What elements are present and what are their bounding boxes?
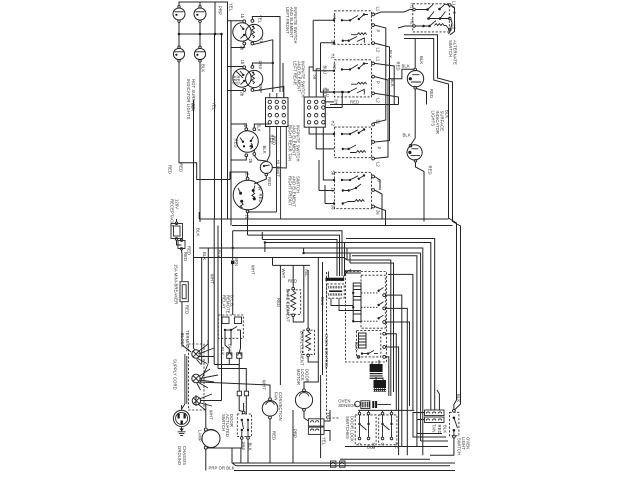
- wire connector feed 4: [437, 390, 439, 410]
- wire bottom bus single: [340, 458, 430, 460]
- svg-text:RED: RED: [179, 163, 184, 172]
- label SWITCH AND ELEMENT RIGHT FRONT: [288, 176, 301, 207]
- wire PRP drop: [214, 2, 216, 34]
- svg-text:PRP: PRP: [241, 442, 246, 451]
- label DOOR ACTUATED SWITCH: [221, 414, 234, 437]
- EOC entry steps: [345, 260, 394, 396]
- wire lamp junction to bus: [232, 448, 236, 466]
- EOC outer dashed enclosure: [346, 272, 387, 363]
- wire bus H3: [233, 231, 342, 276]
- svg-text:H2: H2: [332, 64, 337, 70]
- svg-text:C: C: [380, 443, 385, 446]
- svg-text:P: P: [377, 147, 382, 150]
- hi-limit thermostat: [260, 162, 272, 176]
- wire box A L2 down: [375, 43, 390, 142]
- svg-text:BLK: BLK: [354, 342, 359, 350]
- svg-text:SUPPLY CORD: SUPPLY CORD: [173, 359, 178, 390]
- oven light switch right: [450, 409, 459, 438]
- svg-text:BAKE ELEMENT: BAKE ELEMENT: [286, 289, 291, 323]
- terminal 2b LR: [243, 89, 246, 92]
- connector block motor: [308, 419, 324, 435]
- wire door lock motor bottom: [304, 411, 308, 421]
- svg-text:P: P: [376, 30, 381, 33]
- wire RF element: [230, 172, 266, 235]
- terminal 1b LF: [243, 20, 246, 23]
- console dashed boundary: [327, 272, 341, 418]
- svg-text:BLK: BLK: [419, 56, 424, 64]
- wire BLU verticals: [318, 258, 322, 376]
- svg-text:RED: RED: [276, 298, 281, 307]
- wire into box A row1: [313, 19, 335, 71]
- svg-text:RED: RED: [288, 279, 297, 284]
- wire box A P down BLK: [373, 25, 386, 123]
- wire receptacle to breaker RED: [177, 240, 183, 281]
- svg-text:TAN: TAN: [431, 424, 436, 432]
- svg-text:BLK: BLK: [390, 79, 395, 87]
- terminal L2 C: [372, 157, 375, 160]
- svg-text:RED: RED: [272, 136, 277, 145]
- surface switch box B (dashed): [334, 60, 371, 97]
- wire alt switch right side drops: [449, 6, 455, 35]
- label OVEN SENSOR: [338, 399, 356, 409]
- wire bus H1: [199, 212, 448, 219]
- wire box C D left stubs: [309, 127, 335, 205]
- wire breaker to terminal block RED: [182, 302, 191, 352]
- svg-text:RED: RED: [437, 425, 442, 434]
- wire right YEL bus pair: [272, 17, 283, 93]
- label INFINITE SWITCH AND ELEMENT RIGHT REAR TAN: [288, 125, 301, 162]
- surface switch box A (dashed): [334, 11, 371, 45]
- svg-text:L2: L2: [376, 98, 381, 103]
- svg-text:WHT: WHT: [209, 410, 214, 420]
- wire bus H6: [265, 239, 435, 411]
- svg-text:YEL: YEL: [304, 269, 309, 278]
- surface switch box C (dashed): [334, 127, 371, 158]
- connector P1 hatched: [326, 270, 354, 311]
- svg-text:LEFT REAR: LEFT REAR: [293, 61, 298, 85]
- svg-text:5e: 5e: [331, 171, 336, 176]
- wire PRP-OR-BLK bus: [234, 470, 455, 472]
- svg-text:5a: 5a: [313, 75, 318, 80]
- wire igniter top: [388, 39, 415, 79]
- wire bus H5: [262, 240, 337, 277]
- connector on bus 1: [331, 461, 336, 467]
- svg-text:BRN: BRN: [234, 257, 239, 266]
- element right front (dual): [233, 180, 263, 210]
- indicator lamp DS3 (hot surface, right rear): [173, 46, 184, 62]
- terminal Y1 LF: [251, 42, 254, 45]
- connector block CN2: [304, 97, 325, 127]
- terminal P C: [372, 141, 375, 144]
- terminal block dashed enclosure: [189, 344, 205, 410]
- supply cord conductors: [182, 354, 187, 409]
- junction dots buses: [232, 241, 305, 254]
- svg-text:C: C: [357, 443, 362, 446]
- label DOOR LOCK MOTOR: [296, 369, 310, 385]
- svg-text:H1: H1: [410, 3, 415, 9]
- wire fan top WHT: [200, 382, 270, 398]
- convection fan motor: [262, 398, 278, 419]
- wire bus H7: [199, 248, 423, 455]
- door lock switch left box: [355, 412, 376, 445]
- svg-text:SWITCH: SWITCH: [448, 40, 453, 57]
- EOC right terminal wires: [386, 295, 410, 455]
- svg-text:FAN: FAN: [274, 392, 279, 400]
- wire box A L1 to alternate switch: [375, 10, 413, 15]
- svg-text:H2: H2: [410, 19, 415, 25]
- label TERMINAL BLOCK: [180, 330, 190, 353]
- infinite switch S3 right rear: [237, 131, 259, 153]
- wire into box A row2: [321, 42, 336, 94]
- wire lamp mid junctions: [178, 23, 223, 47]
- wire left verticals: [194, 34, 304, 315]
- terminal P1 LR: [251, 89, 254, 92]
- bake element top wires: [273, 258, 311, 385]
- door lock switch right box: [379, 412, 397, 445]
- indicator lamp DS2 (hot surface, left rear): [194, 6, 206, 23]
- wire CN1 verticals below: [248, 127, 287, 220]
- svg-text:RED: RED: [428, 166, 433, 175]
- terminal PRP LR: [251, 66, 254, 69]
- wire lamp4 bottom BLK run: [199, 62, 201, 222]
- junction blob: [231, 261, 234, 265]
- svg-text:BLK: BLK: [202, 252, 207, 260]
- wire bus H2: [232, 225, 453, 227]
- wire surf light bottom RED: [416, 162, 425, 221]
- label CONVECTION FAN: [274, 392, 284, 421]
- label INFINITE SWITCH AND ELEMENT LEFT FRONT: [285, 7, 298, 44]
- EOC lower relay box: [357, 330, 386, 358]
- label SURFACE INDICATOR LIGHTS: [431, 111, 445, 135]
- svg-text:RED: RED: [168, 165, 173, 174]
- surface switch box D (dashed): [334, 172, 371, 208]
- svg-text:BLK: BLK: [402, 64, 410, 69]
- svg-text:WHT: WHT: [251, 265, 256, 275]
- svg-text:2b: 2b: [248, 159, 253, 164]
- supply entry fans lines: [196, 364, 208, 406]
- svg-text:15A MINI-BREAKER: 15A MINI-BREAKER: [174, 264, 179, 304]
- svg-text:RED: RED: [267, 177, 272, 186]
- svg-text:H2: H2: [331, 121, 336, 127]
- svg-text:GROUND: GROUND: [177, 446, 182, 465]
- wire door switch bottoms: [232, 403, 248, 463]
- svg-text:RED: RED: [396, 62, 401, 71]
- terminal 2b RR: [245, 154, 248, 157]
- terminal 2b LF: [243, 42, 246, 45]
- svg-text:BLK: BLK: [262, 146, 267, 154]
- svg-text:BLK: BLK: [257, 124, 262, 132]
- terminal 1e D: [372, 175, 375, 178]
- wire broil bottom: [308, 357, 318, 362]
- svg-text:L1: L1: [376, 57, 381, 62]
- terminal 2b RF: [246, 210, 249, 213]
- svg-text:BLK: BLK: [196, 228, 201, 236]
- terminal YEL LF: [251, 20, 254, 23]
- svg-text:LIGHTS: LIGHTS: [431, 111, 436, 127]
- wire LR terminals: [228, 63, 284, 98]
- surface element left rear: [246, 70, 263, 87]
- wire above-bus bracket: [345, 446, 448, 448]
- D.L.B. remote relay box: [218, 315, 243, 338]
- terminal RED RR: [253, 153, 256, 156]
- transformer primary: [370, 364, 383, 379]
- label DOOR LOCK SWITCHES: [345, 416, 355, 442]
- right bus pair from top: [404, 35, 461, 410]
- connector block CN1: [266, 98, 289, 127]
- wire left feed bus: [228, 2, 232, 226]
- infinite switch S2 left rear: [233, 69, 251, 87]
- svg-text:P: P: [376, 81, 381, 84]
- left stub labels H1 2H H1 H2 5e 1e 2e: [331, 15, 338, 211]
- svg-text:SENSOR: SENSOR: [338, 403, 356, 408]
- svg-text:BLK: BLK: [442, 425, 447, 433]
- wire LF terminals: [228, 17, 281, 48]
- wire lamp2 top: [199, 2, 201, 6]
- svg-text:BLK: BLK: [220, 347, 225, 355]
- transformer secondary: [374, 380, 387, 392]
- EOC relay coil box: [352, 283, 361, 322]
- svg-text:SWITCHES: SWITCHES: [345, 416, 350, 439]
- svg-text:BLU: BLU: [323, 88, 328, 96]
- surface element left front: [246, 24, 263, 41]
- wire CN2 right side: [325, 91, 343, 108]
- svg-text:WHT: WHT: [262, 380, 267, 390]
- terminal 1b LR: [243, 66, 246, 69]
- svg-text:RED: RED: [185, 305, 190, 314]
- svg-text:BLU: BLU: [320, 297, 325, 305]
- label 120V RECEPTACLE: [170, 199, 180, 228]
- terminal 1b RR: [245, 128, 248, 131]
- svg-text:L2: L2: [376, 48, 381, 53]
- supply plug P1: [173, 410, 189, 426]
- label HOT SURFACE INDICATOR LIGHTS: [186, 79, 196, 120]
- terminal P B: [372, 75, 375, 78]
- label OVEN LIGHT SWITCH: [457, 437, 471, 455]
- svg-text:PRP: PRP: [218, 6, 223, 15]
- label HI LIMIT: [267, 136, 281, 186]
- label INFINITE SWITCH AND ELEMENT LEFT REAR: [293, 61, 306, 98]
- svg-text:BLK: BLK: [201, 64, 206, 72]
- svg-text:PRP: PRP: [257, 61, 262, 70]
- svg-text:BLK: BLK: [388, 50, 393, 58]
- svg-text:RED: RED: [429, 89, 434, 98]
- nested routing left of connector: [413, 413, 448, 442]
- wire fan bottom RED: [269, 419, 271, 463]
- terminal L1 C: [372, 123, 375, 126]
- wire igniter bottom RED: [411, 89, 427, 145]
- wire box B P BLK: [375, 77, 389, 159]
- broil element: [303, 328, 315, 357]
- connector on bus 2: [340, 461, 345, 467]
- svg-text:1b: 1b: [240, 60, 245, 65]
- door switch S10: [237, 411, 251, 439]
- indicator lamp DS1 (hot surface, left front): [173, 6, 185, 23]
- svg-text:BLU: BLU: [323, 66, 328, 74]
- svg-text:2H: 2H: [334, 99, 339, 105]
- svg-text:RED: RED: [258, 194, 263, 203]
- svg-text:L2: L2: [376, 162, 381, 167]
- svg-text:L1: L1: [376, 7, 381, 12]
- label ALTERNATE SWITCH: [448, 40, 458, 65]
- EOC dashed contact box: [361, 275, 386, 328]
- surface indicator light DS5: [407, 145, 422, 163]
- svg-text:RED: RED: [350, 100, 359, 105]
- svg-text:1b: 1b: [240, 14, 245, 19]
- svg-text:LEFT FRONT: LEFT FRONT: [285, 7, 290, 34]
- svg-text:BLK: BLK: [228, 344, 233, 352]
- alternate switch box (dashed): [413, 4, 451, 32]
- terminal L2 B: [372, 92, 375, 95]
- bake element: [288, 287, 301, 316]
- oven sensor connectors: [372, 401, 391, 408]
- svg-text:BLK: BLK: [403, 133, 411, 138]
- svg-text:INDICATOR LIGHTS: INDICATOR LIGHTS: [186, 79, 191, 120]
- oven lamp B1: [202, 428, 220, 449]
- chassis ground symbol: [178, 405, 186, 435]
- terminal BLK RR: [253, 128, 256, 131]
- wire fan from node2: [197, 369, 218, 390]
- wire motor connector sides: [321, 375, 330, 458]
- indicator lamp DS4 (hot surface, right front): [194, 46, 205, 62]
- svg-text:BLK: BLK: [367, 445, 375, 450]
- right bus pair inner: [404, 39, 457, 405]
- wire bake bottom: [293, 317, 304, 322]
- wire receptacle top: [176, 219, 178, 222]
- svg-text:RED: RED: [272, 431, 277, 440]
- wire box D right drops: [375, 177, 386, 226]
- wire oven light switch top: [430, 404, 454, 455]
- wire relay squares to bottom: [214, 358, 248, 414]
- wire door lock junction row: [358, 410, 414, 412]
- terminal block node 1: [192, 350, 200, 358]
- wire box B L1 RED: [375, 63, 395, 104]
- wire PRP drop: [292, 410, 294, 463]
- bottom-right connector row 1: [425, 410, 445, 416]
- infinite switch S1 left front: [233, 23, 251, 41]
- door lock motor: [295, 389, 312, 411]
- svg-text:BLOCK: BLOCK: [180, 333, 185, 348]
- wire bus H9: [194, 258, 348, 261]
- terminal P A: [372, 24, 375, 27]
- svg-text:NC: NC: [394, 443, 399, 449]
- svg-text:RED: RED: [235, 76, 240, 85]
- svg-text:2e: 2e: [331, 205, 336, 210]
- wire top feed YEL: [179, 2, 228, 20]
- svg-text:2e: 2e: [376, 210, 381, 215]
- svg-text:H1: H1: [331, 54, 336, 60]
- wire lamp3 bottom long run: [179, 62, 230, 179]
- svg-text:YEL: YEL: [212, 102, 217, 111]
- svg-text:WHT: WHT: [281, 269, 286, 279]
- fuse box 0.5A: [178, 239, 185, 250]
- wire RR terminals: [231, 124, 269, 161]
- label RED RED: [232, 76, 241, 85]
- svg-text:BLK: BLK: [191, 103, 196, 111]
- wire transformer leads: [372, 360, 383, 381]
- terminal block node 2: [192, 374, 200, 382]
- svg-text:RED: RED: [234, 139, 239, 148]
- wire door lock motor top: [304, 362, 318, 389]
- terminal block node 3: [192, 394, 221, 411]
- svg-text:2b: 2b: [240, 92, 245, 97]
- wire CN2 entries above: [309, 67, 323, 97]
- breaker CB1: [180, 282, 188, 302]
- bottom-right connector row 2: [425, 417, 445, 423]
- terminal 1b RF: [246, 177, 249, 180]
- wire bus H4: [248, 235, 340, 276]
- terminal L1 A: [372, 13, 375, 16]
- svg-text:YEL: YEL: [322, 437, 327, 446]
- svg-text:BLK: BLK: [456, 394, 461, 402]
- svg-text:MOTOR: MOTOR: [296, 369, 301, 385]
- D.L.B. remote relay label: [222, 295, 235, 314]
- svg-text:PRP: PRP: [258, 84, 263, 93]
- svg-text:RELAY: RELAY: [222, 295, 227, 309]
- svg-text:YEL: YEL: [229, 3, 234, 12]
- bottom double bus: [232, 463, 455, 466]
- terminal 2e D: [372, 205, 375, 208]
- terminal L2 A: [372, 42, 375, 45]
- labels TAN RED BLK: [431, 424, 447, 434]
- svg-text:RIGHT REAR TAN: RIGHT REAR TAN: [288, 125, 293, 161]
- receptacle outlet box: [171, 222, 183, 240]
- svg-text:1b: 1b: [243, 123, 248, 128]
- terminal P D: [372, 189, 375, 192]
- svg-text:2b: 2b: [240, 46, 245, 51]
- svg-text:W: W: [257, 187, 262, 191]
- wire DLB relay bottoms: [225, 330, 241, 353]
- svg-text:RIGHT FRONT: RIGHT FRONT: [288, 176, 293, 206]
- svg-text:SWITCH: SWITCH: [457, 438, 462, 455]
- svg-text:BLK: BLK: [217, 250, 222, 258]
- svg-text:LAMP: LAMP: [198, 430, 203, 442]
- wire bus H8: [304, 253, 421, 447]
- svg-text:SWITCH: SWITCH: [221, 414, 226, 431]
- wire lamp top WHT: [205, 403, 207, 428]
- wire alt switch H2: [398, 26, 413, 28]
- svg-text:PRP OR BLK: PRP OR BLK: [209, 466, 235, 471]
- terminal L1 B: [372, 62, 375, 65]
- spark igniter module: [407, 68, 423, 89]
- connector pair on wire: [227, 353, 242, 359]
- wire CN1 top stubs: [270, 93, 284, 98]
- oven sensor symbol: [355, 401, 370, 409]
- wire mid verticals to bottom: [194, 34, 222, 401]
- wire RED horizontal: [330, 104, 399, 106]
- label CHASSIS GROUND: [177, 446, 187, 465]
- svg-text:RED: RED: [187, 246, 192, 255]
- svg-text:BROIL ELEMENT: BROIL ELEMENT: [300, 331, 305, 366]
- wire fan from node1: [197, 340, 215, 365]
- wire box B L2: [375, 93, 399, 104]
- wire lamp bottom to PRP-OR-BLK: [206, 448, 241, 471]
